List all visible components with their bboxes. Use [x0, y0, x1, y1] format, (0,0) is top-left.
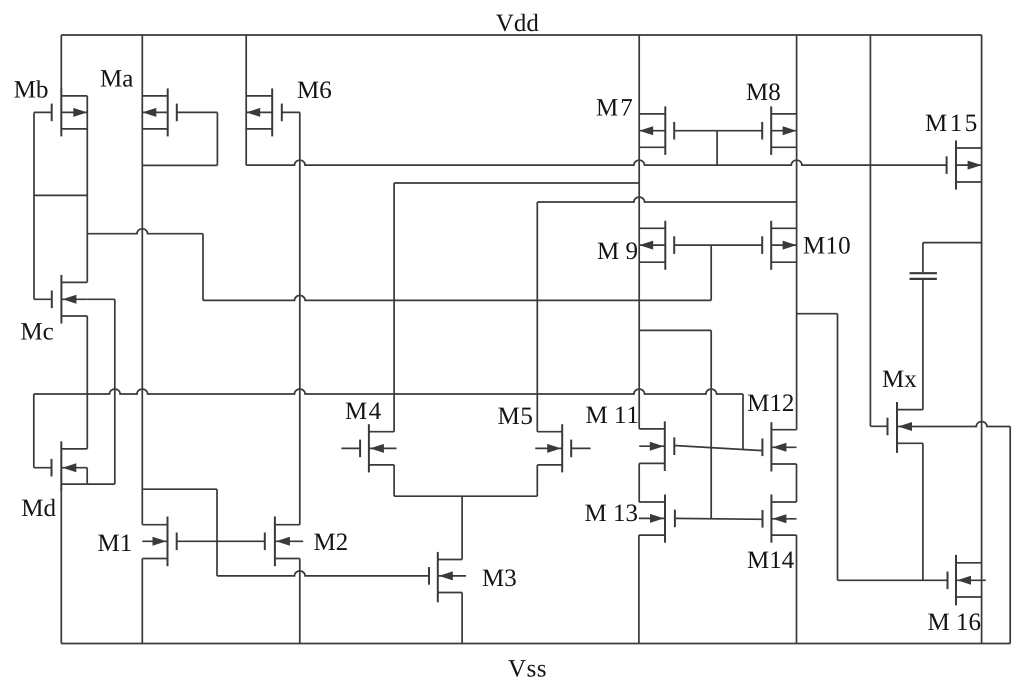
wire M7 M8 gate drop	[716, 131, 718, 165]
label M12	[748, 394, 793, 411]
label M15	[926, 115, 977, 132]
capacitor Cc top plate	[910, 272, 937, 274]
wire Ma mirror branch horizontal	[142, 488, 217, 490]
wire Vdd to Mx gate	[869, 35, 871, 426]
label M13	[585, 504, 637, 521]
wire bias drop to M11 M12 gate line	[742, 394, 744, 449]
wire M12 source to M14 drain	[796, 464, 798, 502]
wire tail M5 source down	[536, 465, 538, 496]
wire Mb gate-drain tie	[34, 194, 87, 196]
wire M1 source to Vss	[141, 559, 143, 644]
wire cascode bias to M9 M10 gates	[203, 296, 711, 301]
wire Mx gate lead	[870, 425, 887, 427]
transistor Mx	[888, 402, 923, 453]
transistor Ma	[142, 88, 217, 136]
wire output branch vertical	[837, 314, 839, 581]
wire tail horizontal	[394, 495, 537, 497]
wire M5 drain vertical	[536, 202, 538, 432]
transistor M14	[763, 495, 797, 543]
label Mb	[14, 80, 47, 98]
wire M9 M10 gate line	[674, 244, 762, 246]
power rail Vss	[61, 643, 1010, 645]
wire Md gate drop	[33, 394, 35, 468]
wire M4 drain to M7 node	[394, 182, 639, 184]
wire tail to M3 drain	[461, 496, 463, 559]
label M4	[346, 403, 381, 420]
wire M11 M12 gate line	[674, 446, 762, 451]
wire Mx source down to M16 gate	[922, 443, 924, 580]
wire M16 gate line	[838, 579, 948, 581]
wire M7 M8 gate line	[674, 130, 762, 132]
wire M6 gate drop to M2 drain	[299, 112, 301, 524]
transistor M16	[948, 555, 986, 605]
wire Ma mirror branch vertical	[216, 489, 218, 576]
wire Mc source to Md drain	[86, 316, 88, 449]
wire M9 M10 gate drop	[710, 245, 712, 300]
label M6	[298, 81, 331, 98]
wire M9 node jog to M13 gates vertical	[710, 330, 712, 518]
label M5	[498, 408, 532, 425]
wire M6 drain bias line	[246, 160, 946, 165]
label M8	[747, 83, 780, 100]
power rail Vdd	[61, 34, 982, 36]
wire M14 source to Vss	[796, 535, 798, 643]
wire M11 source to M13 drain	[638, 463, 640, 502]
transistor M6	[246, 88, 300, 136]
capacitor Cc bottom plate	[910, 278, 937, 280]
wire Vdd to Mb drain	[60, 35, 62, 89]
label M10	[804, 237, 850, 254]
wire M3 source to Vss	[461, 593, 463, 644]
wire Mb source to Mc drain	[86, 96, 88, 283]
transistor Md	[34, 441, 87, 491]
transistor M8	[762, 106, 796, 154]
wire M2 source to Vss	[299, 559, 301, 644]
transistor Mb	[34, 88, 87, 136]
label Md	[22, 499, 56, 517]
label Vss	[508, 660, 545, 677]
wire Mc bulk down to Md source	[114, 299, 116, 484]
wire M9 node jog to M13 gates horizontal	[639, 329, 711, 331]
transistor M12	[762, 422, 796, 471]
transistor M10	[762, 221, 796, 270]
wire M1 M2 gate line	[177, 540, 265, 542]
wire M4 drain vertical	[393, 183, 395, 432]
transistor Mc	[34, 275, 87, 324]
wire Vdd to M7 to M9 to M11	[638, 35, 640, 429]
wire Ma gate tie return	[142, 164, 217, 166]
wire Mx drain to capacitor	[922, 279, 924, 410]
transistor M2	[265, 517, 303, 567]
transistor M5	[535, 424, 590, 472]
wire M5 drain to M10 node	[537, 197, 796, 202]
wire Mx bulk to Vss horizontal	[923, 422, 1010, 427]
wire cascode bias corner	[202, 234, 204, 301]
wire tail M4 source down	[393, 465, 395, 496]
transistor M7	[639, 106, 674, 154]
wire Vdd to M8 to M10 to M12	[796, 35, 798, 430]
wire Md bulk-source tie	[86, 468, 88, 484]
label Mc	[21, 323, 53, 340]
label M7	[597, 99, 632, 115]
label M9	[598, 242, 637, 259]
transistor M15	[947, 141, 982, 190]
wire Vdd to M6	[245, 35, 247, 165]
transistor M11	[639, 421, 674, 471]
wire Mc bulk extension	[87, 298, 115, 300]
label M11	[586, 407, 637, 424]
wire capacitor top lead	[922, 243, 924, 274]
transistor M13	[639, 495, 675, 543]
wire M13 source to Vss	[638, 535, 640, 643]
label M1	[98, 535, 131, 552]
transistor M1	[142, 517, 176, 567]
wire M15 to M16 chain	[981, 35, 983, 644]
wire Ma gate drop	[216, 112, 218, 165]
label M14	[748, 552, 794, 569]
transistor M4	[341, 424, 396, 472]
wire Vdd to Ma	[141, 35, 143, 525]
label M2	[314, 533, 347, 550]
wire Md source to Vss	[60, 492, 62, 644]
wire bias line to Md M11 M12 gates	[34, 389, 743, 394]
wire branch to M3 gate	[217, 571, 429, 576]
label M3	[483, 569, 516, 586]
label Vdd	[496, 14, 538, 32]
label Ma	[101, 70, 133, 87]
wire M13 M14 gate line	[675, 517, 763, 520]
wire output branch horizontal	[797, 313, 838, 315]
transistor M3	[429, 552, 466, 602]
label M16	[928, 613, 980, 630]
node cascode bias horizontal	[87, 229, 203, 234]
transistor M9	[639, 221, 674, 270]
wire Mb gate chain vertical	[33, 112, 35, 299]
wire Md source stub extension	[87, 483, 115, 485]
label Mx	[883, 371, 917, 387]
wire capacitor to M15 source	[923, 242, 982, 244]
wire Mx bulk to Vss vertical	[1009, 427, 1011, 644]
